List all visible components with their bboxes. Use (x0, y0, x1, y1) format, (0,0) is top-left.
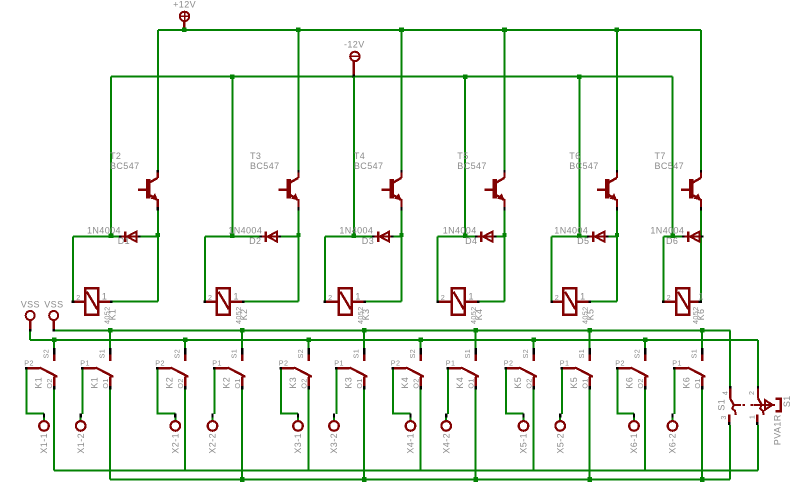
svg-text:S1: S1 (577, 349, 586, 359)
svg-text:4: 4 (720, 391, 729, 395)
svg-text:S1: S1 (352, 349, 361, 359)
svg-text:1N4004: 1N4004 (443, 226, 477, 236)
svg-text:2: 2 (328, 293, 332, 302)
svg-text:1N4004: 1N4004 (339, 226, 373, 236)
svg-text:K3: K3 (343, 377, 353, 389)
svg-text:S1: S1 (716, 399, 726, 411)
svg-text:K6: K6 (681, 377, 691, 389)
svg-text:S2: S2 (408, 349, 417, 359)
svg-text:K1: K1 (89, 377, 99, 389)
svg-text:P1: P1 (672, 358, 682, 367)
svg-text:X5-1: X5-1 (519, 433, 529, 454)
svg-text:O2: O2 (176, 378, 185, 388)
svg-text:O1: O1 (233, 378, 242, 388)
svg-text:S1: S1 (463, 349, 472, 359)
svg-text:D5: D5 (577, 236, 589, 246)
svg-text:X4-2: X4-2 (441, 433, 451, 454)
svg-text:1N4004: 1N4004 (554, 226, 588, 236)
svg-text:P1: P1 (212, 358, 222, 367)
svg-text:K5: K5 (569, 377, 579, 389)
svg-text:P2: P2 (615, 358, 625, 367)
svg-text:X1-1: X1-1 (39, 433, 49, 454)
svg-text:1: 1 (102, 291, 107, 301)
svg-text:D1: D1 (118, 236, 130, 246)
svg-text:X6-1: X6-1 (629, 433, 639, 454)
svg-text:O2: O2 (525, 378, 534, 388)
svg-text:2: 2 (208, 293, 212, 302)
svg-text:O2: O2 (412, 378, 421, 388)
svg-text:T7: T7 (655, 151, 666, 161)
svg-text:1: 1 (355, 291, 360, 301)
svg-text:D3: D3 (362, 236, 374, 246)
svg-text:O2: O2 (636, 378, 645, 388)
svg-text:P2: P2 (391, 358, 401, 367)
svg-text:+12V: +12V (173, 0, 196, 10)
svg-text:K3: K3 (288, 377, 298, 389)
svg-text:S2: S2 (42, 349, 51, 359)
svg-text:T4: T4 (354, 151, 365, 161)
svg-text:BC547: BC547 (110, 161, 140, 171)
svg-text:O1: O1 (693, 378, 702, 388)
svg-text:O1: O1 (581, 378, 590, 388)
svg-text:D4: D4 (465, 236, 477, 246)
svg-text:3: 3 (719, 415, 728, 419)
svg-text:2: 2 (76, 293, 80, 302)
svg-text:X2-2: X2-2 (208, 433, 218, 454)
svg-text:2: 2 (747, 391, 756, 395)
svg-text:K2: K2 (164, 377, 174, 389)
svg-text:D2: D2 (249, 236, 261, 246)
svg-text:X1-2: X1-2 (76, 433, 86, 454)
svg-text:VSS: VSS (44, 299, 63, 309)
svg-text:P2: P2 (504, 358, 514, 367)
svg-text:X3-2: X3-2 (329, 433, 339, 454)
svg-text:1: 1 (469, 291, 474, 301)
svg-text:K1: K1 (107, 309, 117, 321)
svg-text:T2: T2 (110, 151, 121, 161)
svg-text:1: 1 (747, 415, 756, 419)
svg-text:T5: T5 (457, 151, 468, 161)
svg-text:S1: S1 (782, 395, 792, 407)
svg-text:1N4004: 1N4004 (87, 226, 121, 236)
svg-text:P1: P1 (80, 358, 90, 367)
svg-text:X2-1: X2-1 (170, 433, 180, 454)
svg-text:BC547: BC547 (569, 161, 599, 171)
svg-text:P2: P2 (24, 358, 34, 367)
svg-text:VSS: VSS (21, 299, 40, 309)
svg-text:P1: P1 (446, 358, 456, 367)
svg-text:O2: O2 (45, 378, 54, 388)
svg-text:P2: P2 (279, 358, 289, 367)
svg-text:K4: K4 (400, 377, 410, 389)
svg-text:K2: K2 (239, 309, 249, 321)
svg-text:P1: P1 (560, 358, 570, 367)
svg-text:1N4004: 1N4004 (228, 226, 262, 236)
svg-text:T6: T6 (569, 151, 580, 161)
svg-text:X4-1: X4-1 (406, 433, 416, 454)
svg-text:2: 2 (441, 293, 445, 302)
svg-text:-12V: -12V (344, 40, 365, 50)
svg-text:K4: K4 (474, 309, 484, 321)
svg-text:K6: K6 (696, 309, 706, 321)
svg-text:P2: P2 (155, 358, 165, 367)
svg-text:T3: T3 (250, 151, 261, 161)
svg-text:K4: K4 (455, 377, 465, 389)
svg-text:1: 1 (234, 291, 239, 301)
svg-text:S1: S1 (690, 349, 699, 359)
svg-text:S2: S2 (633, 349, 642, 359)
svg-text:O1: O1 (467, 378, 476, 388)
svg-text:S1: S1 (98, 349, 107, 359)
svg-text:2: 2 (555, 293, 559, 302)
svg-text:X3-1: X3-1 (293, 433, 303, 454)
svg-text:BC547: BC547 (457, 161, 487, 171)
svg-text:BC547: BC547 (250, 161, 280, 171)
svg-text:K5: K5 (586, 309, 596, 321)
svg-text:1: 1 (580, 291, 585, 301)
svg-text:K6: K6 (624, 377, 634, 389)
svg-text:PVA1R: PVA1R (772, 414, 782, 445)
svg-text:S1: S1 (230, 349, 239, 359)
svg-text:1N4004: 1N4004 (650, 226, 684, 236)
svg-text:S2: S2 (296, 349, 305, 359)
svg-text:K5: K5 (513, 377, 523, 389)
svg-text:O1: O1 (355, 378, 364, 388)
svg-text:X6-2: X6-2 (668, 433, 678, 454)
svg-text:P1: P1 (334, 358, 344, 367)
svg-text:S2: S2 (173, 349, 182, 359)
svg-text:K3: K3 (361, 309, 371, 321)
svg-text:BC547: BC547 (655, 161, 685, 171)
svg-text:1: 1 (699, 291, 704, 301)
svg-text:D6: D6 (666, 236, 678, 246)
svg-text:O2: O2 (300, 378, 309, 388)
svg-text:S2: S2 (521, 349, 530, 359)
svg-text:K2: K2 (221, 377, 231, 389)
svg-text:X5-2: X5-2 (555, 433, 565, 454)
svg-text:O1: O1 (101, 378, 110, 388)
svg-text:K1: K1 (33, 377, 43, 389)
svg-text:BC547: BC547 (354, 161, 384, 171)
svg-text:2: 2 (667, 293, 671, 302)
